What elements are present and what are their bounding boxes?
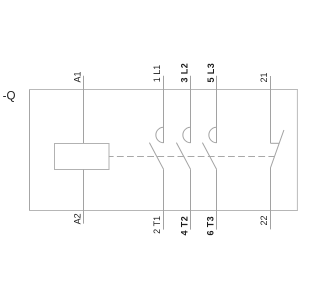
svg-text:21: 21 (259, 72, 269, 82)
svg-text:A1: A1 (73, 71, 83, 82)
svg-text:22: 22 (259, 216, 269, 226)
moving contact blade pole 1 (149, 143, 163, 170)
svg-text:4 T2: 4 T2 (179, 216, 189, 236)
fixed contact arc pole 2 (183, 127, 191, 142)
wire 22 stub (270, 168, 272, 230)
fixed contact arc pole 1 (156, 127, 164, 142)
mechanical linkage dashed line (109, 156, 275, 158)
fixed contact seat aux (271, 142, 280, 144)
svg-text:6 T3: 6 T3 (205, 216, 215, 236)
moving contact blade pole 3 (202, 143, 216, 170)
moving contact blade aux (271, 130, 284, 168)
svg-text:A2: A2 (73, 213, 83, 224)
svg-text:5 L3: 5 L3 (206, 63, 216, 83)
wire 6T3 stub (216, 169, 218, 229)
contactor outline box top edge (29, 89, 298, 91)
coil -Q (55, 144, 110, 170)
wire 4T2 stub (190, 169, 192, 229)
wire 1L1 stub (163, 76, 165, 143)
wire A2 stub (83, 170, 85, 224)
svg-text:3 L2: 3 L2 (180, 63, 190, 83)
wire 3L2 stub (190, 76, 192, 143)
svg-text:2 T1: 2 T1 (152, 216, 162, 234)
auxiliary NC contact 21-22 (271, 76, 284, 229)
wire A1 stub (83, 76, 85, 144)
contactor outline box right edge (296, 89, 298, 211)
wire 21 stub (270, 76, 272, 143)
contactor outline box bottom edge (29, 210, 298, 212)
main contact pole 3 (L3-T3) (202, 76, 216, 230)
wire 2T1 stub (163, 169, 165, 229)
fixed contact arc pole 3 (209, 127, 217, 142)
main contact pole 2 (L2-T2) (176, 76, 190, 230)
contactor outline box left edge (29, 89, 31, 211)
svg-text:-Q: -Q (3, 90, 16, 103)
main contact pole 1 (L1-T1) (149, 76, 163, 230)
wire 5L3 stub (216, 76, 218, 143)
moving contact blade pole 2 (176, 143, 190, 170)
svg-text:1 L1: 1 L1 (152, 65, 162, 83)
